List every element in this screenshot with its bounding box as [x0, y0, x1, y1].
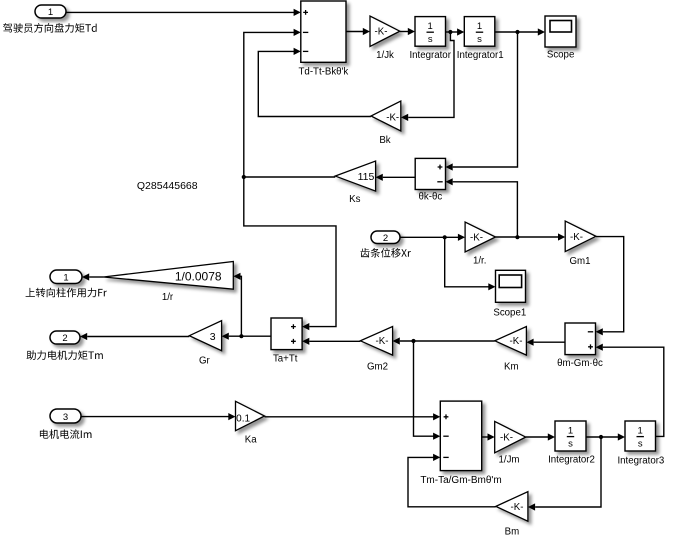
gain 1/r.	[465, 222, 495, 267]
svg-text:2: 2	[383, 233, 388, 244]
svg-text:Tm-Ta/Gm-Bmθ'm: Tm-Ta/Gm-Bmθ'm	[420, 475, 501, 486]
svg-text:1/0.0078: 1/0.0078	[175, 270, 222, 284]
svg-text:s: s	[428, 34, 433, 45]
svg-text:θm-Gm·θc: θm-Gm·θc	[557, 358, 603, 369]
svg-text:115: 115	[358, 171, 375, 183]
input port 2	[371, 231, 400, 244]
gain Gr	[189, 321, 221, 367]
svg-text:Km: Km	[504, 361, 519, 372]
gain Ks	[335, 161, 375, 205]
wire Km to Gm2	[393, 337, 495, 344]
svg-text:3: 3	[63, 412, 68, 423]
wire sum to 1/Jk	[346, 28, 370, 35]
svg-text:Bk: Bk	[379, 135, 390, 146]
svg-text:Ta+Tt: Ta+Tt	[273, 354, 298, 365]
sum block Tm-Ta/Gm-Bmθ'm	[420, 401, 501, 486]
sum block Td-Tt-Bkθ'k	[299, 1, 349, 78]
wire In1 to sum	[66, 9, 301, 16]
svg-text:Scope: Scope	[547, 49, 574, 60]
wire 1/r. to Gm1	[496, 233, 566, 240]
svg-text:-K-: -K-	[386, 112, 399, 123]
wire Bk to sum	[258, 48, 371, 117]
output port 2	[50, 331, 80, 344]
gain Km	[495, 327, 527, 373]
svg-text:s: s	[477, 34, 482, 45]
wire Integrator to Integrator1	[446, 28, 465, 35]
wire 1/Jm to Integrator2	[526, 433, 555, 440]
svg-text:0.1: 0.1	[236, 413, 250, 424]
wire In3 to Ka	[81, 413, 236, 420]
svg-text:Integrator3: Integrator3	[617, 455, 664, 466]
svg-text:1: 1	[63, 273, 68, 284]
wire Integrator2 to Integrator3	[586, 433, 625, 440]
gain 1/Jm	[495, 421, 526, 465]
wire 1/0.0078 to Out1	[82, 273, 104, 280]
wire Ta+Tt to Gr	[222, 333, 271, 340]
svg-text:1/r.: 1/r.	[473, 256, 486, 267]
input port 1	[35, 5, 66, 18]
wire Gm2 to Ta+Tt	[302, 338, 360, 345]
svg-text:-K-: -K-	[570, 232, 583, 243]
wire branch to 1/0.0078	[233, 273, 241, 337]
svg-text:1: 1	[48, 7, 53, 18]
label 助力电机力矩Tm	[27, 350, 103, 360]
gain Bm	[496, 492, 528, 538]
gain Gm2	[360, 327, 392, 373]
wire Gm1 to θm sum	[596, 237, 624, 336]
wire Bm to Tm sum	[408, 454, 496, 507]
svg-text:1: 1	[428, 21, 433, 32]
integrator Integrator	[409, 17, 451, 62]
scope Scope	[545, 16, 576, 60]
wire Ka to Tm sum	[265, 413, 441, 420]
svg-text:Integrator: Integrator	[409, 50, 451, 61]
wire branch to Scope1	[445, 237, 496, 290]
wire Tt branch to Ta+Tt	[244, 177, 336, 330]
wire branch to Tm sum	[414, 341, 441, 440]
svg-text:1: 1	[638, 425, 643, 436]
wire Tm sum to 1/Jm	[482, 433, 495, 440]
sum block θk-θc	[415, 158, 445, 202]
gain Bk	[371, 101, 401, 146]
gain 1/0.0078	[104, 262, 234, 304]
wire Gr to Out2	[80, 333, 189, 340]
gain 1/Jk	[370, 16, 400, 61]
svg-text:1/Jk: 1/Jk	[376, 50, 394, 61]
label 齿条位移Xr	[361, 248, 412, 258]
svg-text:3: 3	[210, 331, 216, 343]
svg-text:Bm: Bm	[505, 526, 520, 537]
label 驾驶员方向盘力矩Td	[3, 23, 97, 33]
svg-text:Ka: Ka	[245, 435, 257, 446]
svg-text:Td-Tt-Bkθ'k: Td-Tt-Bkθ'k	[299, 67, 349, 78]
svg-text:Gr: Gr	[199, 356, 211, 367]
gain Gm1	[565, 221, 596, 267]
wire junction to Bk	[401, 32, 454, 121]
wire θc branch to θk-θc minus	[446, 178, 518, 237]
svg-text:1/Jm: 1/Jm	[499, 455, 520, 466]
sum block θm-Gm·θc	[557, 323, 603, 369]
scope Scope1	[493, 270, 526, 318]
svg-text:Scope1: Scope1	[493, 308, 526, 319]
svg-text:Q285445668: Q285445668	[137, 180, 198, 192]
label 上转向柱作用力Fr	[26, 288, 107, 298]
svg-text:-K-: -K-	[376, 336, 389, 347]
svg-text:Ks: Ks	[349, 194, 360, 205]
input port 3	[50, 409, 81, 423]
svg-text:-K-: -K-	[375, 26, 388, 37]
svg-text:-K-: -K-	[510, 336, 523, 347]
integrator Integrator3	[617, 421, 664, 466]
wire Integrator1 to Scope	[495, 28, 545, 35]
svg-text:1: 1	[568, 425, 573, 436]
svg-text:2: 2	[62, 333, 67, 344]
svg-text:s: s	[568, 438, 573, 449]
svg-text:-K-: -K-	[511, 502, 524, 513]
wire branch to Bm	[528, 437, 601, 511]
integrator Integrator1	[457, 17, 504, 62]
wire In2 to 1/r.	[400, 234, 465, 241]
integrator Integrator2	[548, 421, 595, 466]
svg-text:Gm1: Gm1	[570, 256, 591, 267]
output port 1	[50, 270, 82, 284]
svg-text:-K-: -K-	[470, 232, 483, 243]
sum block Ta+Tt	[271, 318, 302, 365]
svg-text:Integrator2: Integrator2	[548, 455, 595, 466]
wire junction to θk-θc plus	[446, 32, 518, 171]
svg-text:1: 1	[477, 21, 482, 32]
svg-text:Gm2: Gm2	[367, 361, 388, 372]
svg-text:1/r: 1/r	[162, 292, 174, 303]
svg-text:θk-θc: θk-θc	[419, 192, 443, 203]
wire 1/Jk to Integrator	[400, 28, 415, 35]
wire Integrator3 feedback	[596, 344, 664, 437]
gain Ka	[236, 401, 265, 445]
svg-text:-K-: -K-	[500, 432, 513, 443]
svg-text:s: s	[638, 438, 643, 449]
wire θk-θc to Ks	[376, 174, 416, 181]
label 电机电流Im	[40, 429, 92, 439]
svg-text:Integrator1: Integrator1	[457, 50, 504, 61]
wire θm sum to Km	[526, 339, 565, 346]
wire Ks to sum Tt	[242, 29, 336, 179]
